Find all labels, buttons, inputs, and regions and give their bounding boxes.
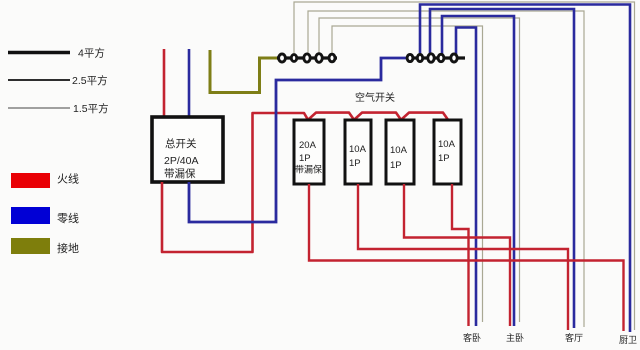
svg-text:2P/40A: 2P/40A [164, 155, 198, 167]
svg-text:厨卫: 厨卫 [619, 335, 637, 345]
svg-text:火线: 火线 [57, 172, 79, 186]
svg-text:零线: 零线 [57, 211, 79, 225]
svg-text:1.5平方: 1.5平方 [73, 102, 109, 115]
svg-text:空气开关: 空气开关 [355, 91, 395, 104]
svg-text:10A: 10A [390, 145, 408, 156]
svg-text:总开关: 总开关 [165, 137, 197, 150]
svg-text:带漏保: 带漏保 [295, 164, 322, 175]
svg-text:1P: 1P [390, 160, 402, 171]
svg-text:2.5平方: 2.5平方 [72, 74, 108, 87]
svg-text:20A: 20A [299, 140, 317, 151]
svg-text:10A: 10A [438, 139, 456, 150]
svg-text:主卧: 主卧 [506, 332, 524, 343]
svg-text:接地: 接地 [57, 242, 79, 255]
svg-text:10A: 10A [349, 144, 367, 155]
svg-text:带漏保: 带漏保 [164, 167, 196, 180]
svg-text:客卧: 客卧 [463, 332, 481, 343]
svg-text:1P: 1P [299, 153, 311, 164]
svg-text:1P: 1P [349, 158, 361, 169]
svg-text:1P: 1P [438, 153, 450, 164]
svg-text:客厅: 客厅 [565, 332, 583, 343]
svg-text:4平方: 4平方 [78, 47, 105, 60]
